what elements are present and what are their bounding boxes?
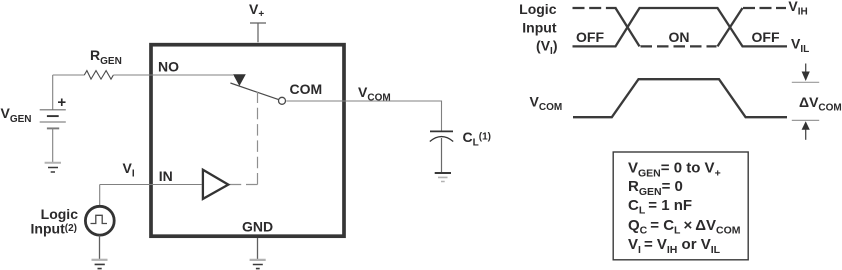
switch S1 arrow bbox=[233, 74, 246, 86]
svg-text:IN: IN bbox=[159, 168, 173, 184]
label OFF left bbox=[576, 29, 604, 45]
delta top tick bbox=[792, 81, 819, 83]
label VCOM bbox=[358, 84, 391, 104]
svg-text:(VI): (VI) bbox=[536, 37, 557, 57]
svg-text:VCOM: VCOM bbox=[530, 94, 563, 114]
condition line VGEN bbox=[628, 160, 721, 180]
DUT box U1 bbox=[151, 45, 344, 237]
wire battery to ground bbox=[52, 128, 54, 162]
logic waveform dashed high right bbox=[743, 7, 786, 9]
delta bottom tick bbox=[792, 119, 819, 121]
ground (GND) bbox=[250, 260, 266, 269]
label VGEN bbox=[1, 105, 32, 125]
label Logic Input (VI) bbox=[519, 1, 557, 57]
logic waveform dashed high left bbox=[573, 7, 617, 9]
svg-text:VIL: VIL bbox=[791, 36, 809, 56]
svg-text:VIH: VIH bbox=[788, 0, 807, 18]
dashed control line bbox=[229, 92, 258, 185]
label VI bbox=[123, 160, 135, 180]
battery VGEN bbox=[40, 110, 66, 129]
wire COM to CL bbox=[286, 101, 441, 131]
logic waveform solid path bbox=[573, 8, 788, 46]
VCOM waveform bbox=[573, 79, 787, 117]
capacitor CL bbox=[430, 131, 453, 141]
label VIH bbox=[788, 0, 807, 18]
resistor RGEN bbox=[84, 71, 113, 80]
svg-text:Input: Input bbox=[522, 19, 557, 35]
wire battery top lead bbox=[52, 75, 54, 110]
svg-text:VCOM: VCOM bbox=[358, 84, 391, 104]
label Logic Input(2) bbox=[31, 206, 79, 237]
svg-text:NO: NO bbox=[158, 59, 179, 75]
pulse source bbox=[85, 206, 114, 235]
logic waveform falling transition bbox=[616, 8, 640, 46]
wire IN bbox=[100, 184, 202, 186]
svg-text:Input(2): Input(2) bbox=[31, 221, 77, 237]
svg-text:ΔVCOM: ΔVCOM bbox=[799, 94, 842, 114]
svg-text:+: + bbox=[57, 94, 66, 111]
label VIL bbox=[791, 36, 809, 56]
svg-text:CL(1): CL(1) bbox=[463, 129, 491, 149]
svg-text:VI = VIH or VIL: VI = VIH or VIL bbox=[628, 236, 721, 256]
power terminal V+ bbox=[250, 23, 266, 42]
ground (CL) bbox=[435, 173, 451, 182]
svg-text:Logic: Logic bbox=[519, 1, 557, 17]
wire VGEN to RGEN bbox=[53, 74, 85, 76]
svg-text:OFF: OFF bbox=[752, 29, 780, 45]
svg-text:ON: ON bbox=[669, 29, 690, 45]
logic waveform rising transition bbox=[718, 8, 743, 46]
conditions box bbox=[613, 152, 748, 260]
pin label NO bbox=[158, 59, 179, 75]
label CL(1) bbox=[463, 129, 491, 149]
condition line VI bbox=[628, 236, 721, 256]
svg-text:VGEN: VGEN bbox=[1, 105, 32, 125]
pin label COM bbox=[290, 81, 323, 97]
ground (VGEN) bbox=[45, 163, 61, 172]
wire source to ground bbox=[99, 235, 101, 259]
condition line CL bbox=[628, 197, 692, 217]
wire RGEN to NO bbox=[113, 74, 233, 76]
label VCOM waveform bbox=[530, 94, 563, 114]
condition line RGEN bbox=[628, 178, 683, 198]
label ON bbox=[669, 29, 690, 45]
label RGEN bbox=[90, 47, 122, 67]
buffer A1 bbox=[203, 170, 228, 199]
wire source to IN bbox=[99, 185, 101, 207]
label OFF right bbox=[752, 29, 780, 45]
pin label IN bbox=[159, 168, 173, 184]
svg-text:V+: V+ bbox=[249, 1, 264, 20]
wire GND pin to ground bbox=[257, 238, 259, 260]
ground (pulse source) bbox=[92, 260, 108, 269]
switch S1 pole bbox=[230, 83, 278, 100]
svg-text:RGEN= 0: RGEN= 0 bbox=[628, 178, 683, 198]
switch S1 COM contact bbox=[279, 97, 286, 104]
delta up arrow bbox=[802, 121, 810, 140]
condition line QC bbox=[628, 217, 741, 237]
svg-text:CL = 1 nF: CL = 1 nF bbox=[628, 197, 692, 217]
svg-text:OFF: OFF bbox=[576, 29, 604, 45]
svg-text:VI: VI bbox=[123, 160, 135, 180]
delta down arrow bbox=[802, 64, 810, 82]
svg-text:GND: GND bbox=[242, 218, 273, 234]
svg-text:VGEN= 0 to V+: VGEN= 0 to V+ bbox=[628, 160, 721, 180]
svg-text:RGEN: RGEN bbox=[90, 47, 122, 67]
label + bbox=[57, 94, 66, 111]
svg-text:QC = CL × ΔVCOM: QC = CL × ΔVCOM bbox=[628, 217, 741, 237]
label V+ bbox=[249, 1, 264, 20]
label dVCOM bbox=[799, 94, 842, 114]
svg-text:COM: COM bbox=[290, 81, 323, 97]
wire CL to ground bbox=[441, 138, 443, 173]
pin label GND bbox=[242, 218, 273, 234]
logic waveform dashed low middle bbox=[641, 45, 717, 47]
